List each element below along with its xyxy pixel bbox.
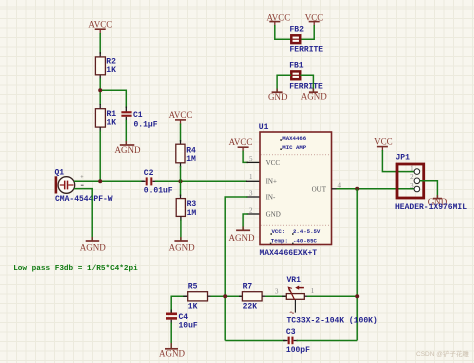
microphone Q1 xyxy=(55,168,85,193)
ground AGND at FB1 xyxy=(301,92,327,102)
svg-text:FERRITE: FERRITE xyxy=(289,83,323,92)
svg-text:1K: 1K xyxy=(106,66,116,75)
wire IC pin3 to lower net xyxy=(225,197,260,341)
svg-text:Temp:: Temp: xyxy=(271,237,288,244)
svg-text:CMA-4544PF-W: CMA-4544PF-W xyxy=(55,195,113,204)
pin number 4 xyxy=(338,182,342,190)
svg-text:JP1: JP1 xyxy=(396,153,411,162)
svg-text:+: + xyxy=(80,175,84,181)
svg-text:3: 3 xyxy=(249,190,253,198)
op-amp U1 body xyxy=(259,123,332,244)
svg-text:Low pass F3db = 1/R5*C4*2pi: Low pass F3db = 1/R5*C4*2pi xyxy=(13,265,138,273)
svg-text:MAX4466: MAX4466 xyxy=(282,135,306,142)
svg-text:-40-85C: -40-85C xyxy=(293,237,317,244)
svg-text:AGND: AGND xyxy=(159,349,185,359)
svg-text:1: 1 xyxy=(249,173,253,181)
ground AGND under C1 xyxy=(115,145,141,155)
node junction C2/R4/R3 xyxy=(179,179,183,183)
power VCC at FB2 xyxy=(305,12,324,26)
wire VR1 to OUT net xyxy=(304,295,357,297)
wire mic minus to AGND xyxy=(74,189,92,241)
wire AVCC to FB2 xyxy=(275,25,291,39)
label CMA-4544PF-W xyxy=(55,195,113,204)
resistor R7 xyxy=(242,283,262,312)
ferrite FB2 xyxy=(290,26,324,55)
wire VCC to JP1 pin1 xyxy=(382,150,414,172)
wire main line mic to IC pin1 xyxy=(74,180,260,182)
pin number 3 xyxy=(249,190,253,198)
resistor R2 xyxy=(95,57,116,75)
ground AGND at IC pin2 xyxy=(229,230,255,243)
node junction R2/R1/C1 xyxy=(98,88,102,92)
svg-text:100pF: 100pF xyxy=(286,346,310,355)
svg-text:0.01uF: 0.01uF xyxy=(144,187,173,196)
svg-text:U1: U1 xyxy=(259,123,269,132)
wire C4/R5 stub xyxy=(183,295,188,297)
ground GND at FB1 xyxy=(268,92,288,102)
svg-text:OUT: OUT xyxy=(312,186,327,194)
svg-text:VCC: VCC xyxy=(266,159,281,167)
label TC33X value xyxy=(287,317,378,326)
svg-text:AVCC: AVCC xyxy=(229,137,253,147)
wire C4 to AGND xyxy=(170,320,172,349)
svg-text:AGND: AGND xyxy=(169,243,195,253)
pin number 1 of VR1 xyxy=(311,287,315,295)
wire R4 to junction xyxy=(180,163,182,182)
wire AVCC to R2 xyxy=(99,33,101,58)
svg-text:AGND: AGND xyxy=(115,145,141,155)
svg-text:AGND: AGND xyxy=(301,92,327,102)
ferrite FB1 xyxy=(289,62,323,92)
svg-text:2: 2 xyxy=(410,173,414,181)
green note text xyxy=(13,265,138,273)
svg-text:10uF: 10uF xyxy=(179,321,198,330)
svg-text:AVCC: AVCC xyxy=(266,12,290,22)
resistor R4 xyxy=(176,144,196,164)
power VCC at JP1 xyxy=(374,137,393,152)
pin number 3 of VR1 xyxy=(275,288,279,296)
svg-text:C1: C1 xyxy=(133,111,143,120)
potentiometer VR1 xyxy=(286,276,304,313)
watermark xyxy=(416,349,469,358)
svg-text:1M: 1M xyxy=(186,155,196,164)
svg-text:R3: R3 xyxy=(187,200,197,209)
svg-text:FB2: FB2 xyxy=(290,26,305,35)
svg-text:VCC: VCC xyxy=(374,137,393,147)
wire bottom rail xyxy=(225,340,357,342)
svg-text:GND: GND xyxy=(268,92,288,102)
svg-text:2.4-5.5V: 2.4-5.5V xyxy=(293,228,321,235)
wire junction to R3 xyxy=(180,181,182,199)
svg-text:FERRITE: FERRITE xyxy=(290,46,324,55)
power AVCC at FB2 xyxy=(266,12,290,26)
svg-text:2: 2 xyxy=(249,207,253,215)
wire OUT pin4 xyxy=(332,188,415,190)
node junction VR1/OUT xyxy=(355,294,359,298)
wire AVCC to R4 xyxy=(180,124,182,146)
svg-text:Q1: Q1 xyxy=(55,168,65,177)
wire R2 bottom to R1 top (junction at y=90) xyxy=(99,75,101,110)
svg-text:AVCC: AVCC xyxy=(169,110,193,120)
wire R3 to AGND xyxy=(180,216,182,240)
capacitor C1 xyxy=(121,111,157,130)
svg-text:C3: C3 xyxy=(286,328,296,337)
svg-text:4: 4 xyxy=(338,182,342,190)
svg-text:IN+: IN+ xyxy=(266,177,277,185)
wire R5 to R7 xyxy=(208,295,244,297)
node junction mic/R1 xyxy=(98,179,102,183)
capacitor C4 xyxy=(166,313,198,331)
svg-text:HEADER-1X976MIL: HEADER-1X976MIL xyxy=(395,203,467,212)
wire R1 bottom to main line xyxy=(99,127,101,181)
svg-text:VCC: VCC xyxy=(305,12,324,22)
pin number 1 xyxy=(249,173,253,181)
svg-text:AGND: AGND xyxy=(80,243,106,253)
wire IC pin2 to AGND xyxy=(243,214,260,230)
wire AVCC to IC pin5 xyxy=(243,151,260,163)
svg-text:R7: R7 xyxy=(243,283,253,292)
svg-text:AVCC: AVCC xyxy=(88,19,112,29)
svg-text:1: 1 xyxy=(311,287,315,295)
power AVCC above R4 xyxy=(169,110,193,125)
ground AGND under C4 xyxy=(159,349,185,359)
wire JP1 pin2 to GND xyxy=(420,181,438,199)
resistor R3 xyxy=(176,199,196,218)
svg-text:1K: 1K xyxy=(188,303,198,312)
wire FB2 to VCC xyxy=(301,25,315,39)
ground AGND under mic xyxy=(80,241,106,253)
svg-text:FB1: FB1 xyxy=(289,62,304,71)
svg-text:IN-: IN- xyxy=(266,194,276,202)
svg-text:CSDN @铲子花雕: CSDN @铲子花雕 xyxy=(416,349,469,358)
svg-text:C2: C2 xyxy=(144,169,154,178)
label HEADER-1X976MIL xyxy=(395,203,467,212)
label MAX4466EXK+T xyxy=(260,249,318,258)
ground AGND under R3 xyxy=(169,241,195,253)
ground GND at JP1 xyxy=(428,197,448,207)
svg-text:3: 3 xyxy=(275,288,279,296)
capacitor C3 xyxy=(286,328,310,355)
svg-text:MAX4466EXK+T: MAX4466EXK+T xyxy=(260,249,318,258)
pin number 5 xyxy=(249,155,253,163)
svg-text:1: 1 xyxy=(410,164,414,172)
svg-text:22K: 22K xyxy=(243,303,258,312)
wire GND to FB1 xyxy=(277,75,291,92)
svg-text:MIC AMP: MIC AMP xyxy=(282,144,306,151)
wire C1 to AGND xyxy=(125,117,127,145)
svg-text:R4: R4 xyxy=(186,147,196,156)
wire FB1 to AGND xyxy=(301,75,314,92)
resistor R1 xyxy=(95,109,116,128)
wire junction to C1 xyxy=(100,90,126,111)
wire C4 branch xyxy=(171,296,187,313)
resistor R5 xyxy=(188,283,208,312)
svg-text:R5: R5 xyxy=(188,283,198,292)
power AVCC top-left xyxy=(88,19,112,34)
svg-text:GND: GND xyxy=(266,211,281,219)
svg-text:0.1µF: 0.1µF xyxy=(134,121,158,130)
wire OUT down to bottom rail xyxy=(356,189,358,341)
node junction R5/R7/IN- net xyxy=(223,294,227,298)
node junction OUT xyxy=(355,187,359,191)
svg-text:1M: 1M xyxy=(187,209,197,218)
svg-text:5: 5 xyxy=(249,155,253,163)
svg-text:AGND: AGND xyxy=(229,233,255,243)
svg-text:TC33X-2-104K (100K): TC33X-2-104K (100K) xyxy=(287,317,378,326)
svg-text:VR1: VR1 xyxy=(287,276,302,285)
svg-text:1K: 1K xyxy=(107,119,117,128)
capacitor C2 xyxy=(144,169,173,195)
svg-text:VCC:: VCC: xyxy=(272,228,286,235)
wire R7 to VR1 xyxy=(262,295,286,297)
pin number 2 xyxy=(249,207,253,215)
svg-text:3: 3 xyxy=(410,182,414,190)
power AVCC at IC pin5 xyxy=(229,137,253,151)
connector JP1 xyxy=(396,153,424,198)
